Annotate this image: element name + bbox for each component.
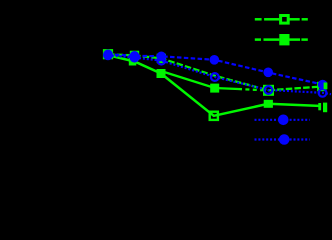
series S2 open circle x2 bbox=[131, 54, 139, 62]
series Gmid filled square marker bbox=[210, 84, 219, 93]
legend entry E1 line (green dashed, open square) bbox=[255, 18, 308, 21]
series S1 filled circle x5 bbox=[263, 68, 273, 78]
series S1 filled circle x2 bbox=[130, 51, 140, 61]
series S1 filled circle x3 bbox=[157, 52, 167, 62]
series G1 line (green dashed, open squares) bbox=[108, 54, 322, 90]
series S2 open circle x3 bbox=[157, 57, 165, 65]
series G1 open square x5 bbox=[264, 86, 273, 95]
series S1 line (blue dashed, filled circles) bbox=[108, 54, 323, 84]
series G1 open square x1 bbox=[104, 50, 112, 58]
series S1 filled circle x4 bbox=[210, 55, 220, 65]
legend entry E3 line (blue dotted, filled circle) bbox=[255, 119, 310, 121]
series S1 filled circle x1 bbox=[103, 50, 113, 60]
legend entry E1 open square marker bbox=[281, 16, 289, 24]
series G2 marker square x2 bbox=[129, 58, 137, 66]
series S2 open circle x1 bbox=[104, 51, 112, 59]
series G2 end bar 2 bbox=[323, 103, 327, 113]
series G2 end bar 1 bbox=[318, 103, 321, 110]
legend entry E2 filled square marker bbox=[279, 34, 289, 45]
series G2 marker square x5 bbox=[264, 100, 273, 108]
series S2 line (blue dotted, open circles) bbox=[108, 55, 331, 94]
series S1 filled circle x6 bbox=[318, 80, 328, 90]
series G2 line (green, steep dip through open square) bbox=[108, 55, 319, 116]
series Gmid line (green, flat middle segment) bbox=[161, 71, 238, 89]
series G2 marker square x3 bbox=[157, 69, 166, 78]
series S2 open circle x6 bbox=[319, 89, 327, 97]
right edge green overlay bar (G1 square edge over blue cluster) bbox=[324, 83, 328, 90]
legend entry E4 filled circle marker bbox=[279, 134, 290, 145]
series Gmid dashed tail bbox=[238, 89, 264, 90]
series G1 open square x6 bbox=[318, 83, 325, 90]
series G2 open square marker x4 bbox=[210, 112, 218, 120]
series G1 open square x3 bbox=[158, 55, 165, 62]
legend entry E4 line (blue dotted, filled circle) bbox=[255, 138, 310, 140]
series G1 open square x2 bbox=[131, 52, 138, 59]
legend entry E2 line (green dashed, filled square) bbox=[255, 38, 308, 41]
legend entry E3 filled circle marker bbox=[278, 115, 289, 126]
series S2 open circle x4 bbox=[211, 73, 219, 81]
series S2 open circle x5 bbox=[265, 86, 273, 94]
